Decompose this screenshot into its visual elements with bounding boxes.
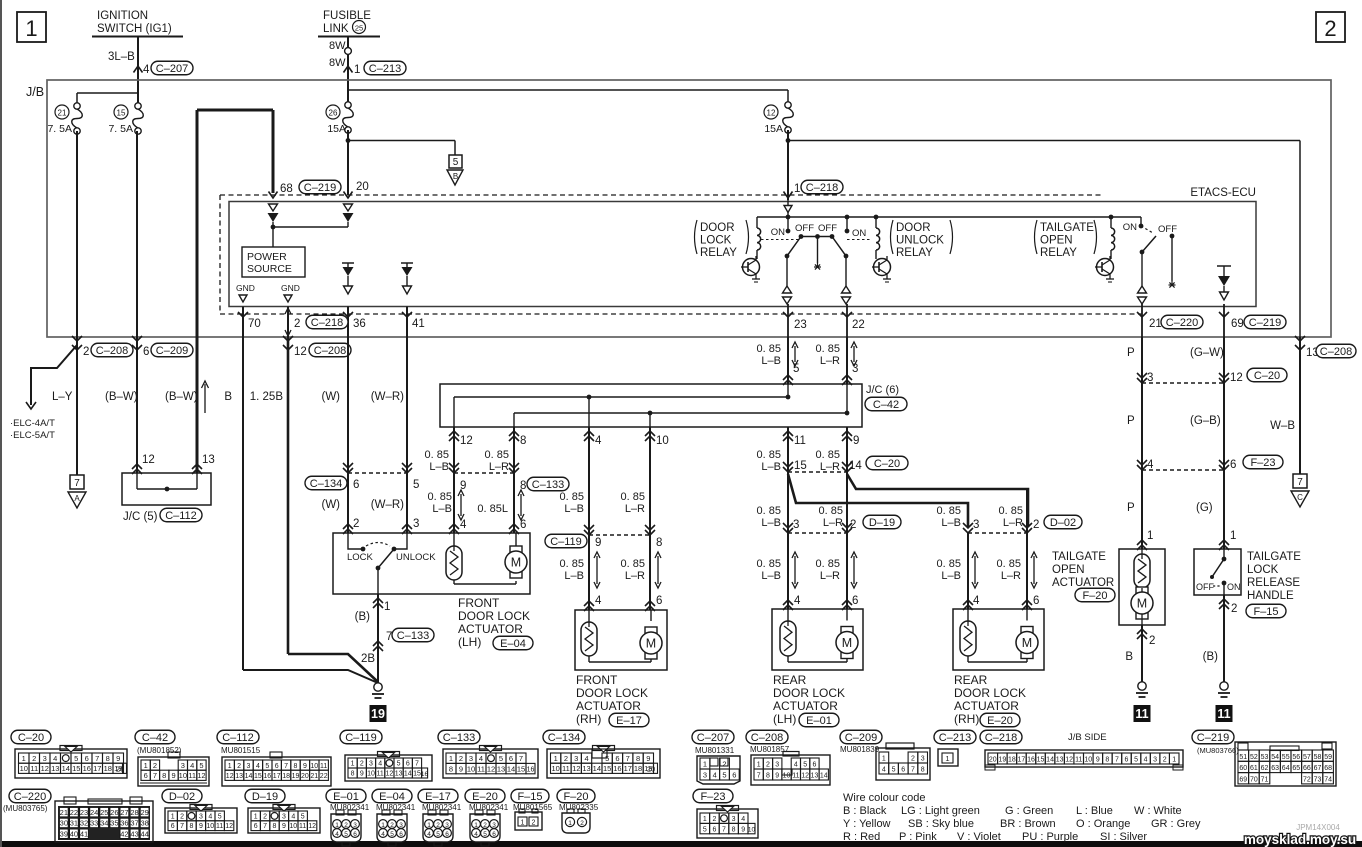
svg-text:3: 3 xyxy=(574,754,578,763)
svg-text:5: 5 xyxy=(483,831,487,838)
svg-text:4: 4 xyxy=(973,595,980,607)
svg-text:69: 69 xyxy=(1231,318,1244,330)
svg-text:8: 8 xyxy=(449,764,453,773)
svg-text:4: 4 xyxy=(208,813,212,820)
svg-text:L–Y: L–Y xyxy=(52,391,73,403)
svg-text:19: 19 xyxy=(371,707,385,721)
svg-text:3: 3 xyxy=(181,761,185,770)
svg-text:L–R: L–R xyxy=(625,570,645,582)
svg-text:6: 6 xyxy=(520,519,526,531)
svg-text:15A: 15A xyxy=(327,123,346,135)
svg-text:BR : Brown: BR : Brown xyxy=(1000,818,1056,830)
svg-text:13: 13 xyxy=(811,773,819,780)
svg-text:(B–W): (B–W) xyxy=(105,391,138,403)
svg-text:C–134: C–134 xyxy=(310,478,342,490)
svg-text:C–213: C–213 xyxy=(369,63,401,75)
svg-text:L–R: L–R xyxy=(1001,570,1021,582)
svg-text:2: 2 xyxy=(153,761,157,770)
svg-text:OPEN: OPEN xyxy=(1052,564,1085,576)
svg-text:10: 10 xyxy=(656,435,669,447)
svg-text:21: 21 xyxy=(58,109,67,118)
svg-text:12: 12 xyxy=(226,773,234,780)
svg-text:C–20: C–20 xyxy=(1254,370,1280,382)
svg-text:1: 1 xyxy=(1147,530,1153,542)
svg-text:9: 9 xyxy=(360,771,364,778)
svg-text:41: 41 xyxy=(412,318,425,330)
svg-text:5: 5 xyxy=(436,831,440,838)
svg-text:25: 25 xyxy=(100,808,108,817)
svg-text:1: 1 xyxy=(427,822,431,829)
svg-text:4: 4 xyxy=(335,831,339,838)
svg-text:18: 18 xyxy=(634,764,642,773)
svg-text:11: 11 xyxy=(216,823,223,830)
svg-text:GND: GND xyxy=(236,283,255,293)
svg-text:E–04: E–04 xyxy=(500,638,526,650)
svg-text:0. 85: 0. 85 xyxy=(819,505,843,517)
svg-text:28: 28 xyxy=(130,808,138,817)
svg-text:8: 8 xyxy=(273,823,277,830)
svg-text:60: 60 xyxy=(1239,765,1247,772)
svg-text:7: 7 xyxy=(722,826,726,833)
svg-text:L–B: L–B xyxy=(761,517,781,529)
svg-text:9: 9 xyxy=(459,764,463,773)
svg-text:27: 27 xyxy=(120,808,128,817)
svg-text:2: 2 xyxy=(564,754,568,763)
svg-text:GR : Grey: GR : Grey xyxy=(1151,818,1201,830)
svg-text:22: 22 xyxy=(70,808,78,817)
svg-text:4: 4 xyxy=(595,595,602,607)
svg-text:7: 7 xyxy=(519,754,523,763)
svg-text:Wire colour code: Wire colour code xyxy=(843,792,926,804)
svg-text:57: 57 xyxy=(1303,754,1311,761)
svg-text:12: 12 xyxy=(308,823,316,830)
svg-text:MU801839: MU801839 xyxy=(840,745,880,754)
svg-text:(LH): (LH) xyxy=(458,635,481,649)
svg-text:14: 14 xyxy=(820,773,828,780)
svg-text:11: 11 xyxy=(1217,707,1230,721)
svg-text:E–20: E–20 xyxy=(472,791,498,803)
svg-text:12: 12 xyxy=(767,109,776,118)
svg-text:2B: 2B xyxy=(361,653,375,665)
svg-text:F–20: F–20 xyxy=(563,791,588,803)
svg-text:3: 3 xyxy=(793,519,799,531)
svg-text:3: 3 xyxy=(399,822,403,829)
svg-text:4: 4 xyxy=(460,519,467,531)
svg-text:74: 74 xyxy=(1324,777,1332,784)
svg-text:0. 85L: 0. 85L xyxy=(477,503,508,515)
svg-text:M: M xyxy=(646,637,656,651)
svg-text:(MU803766): (MU803766) xyxy=(1197,746,1239,755)
svg-text:L–B: L–B xyxy=(941,570,961,582)
svg-text:11: 11 xyxy=(320,763,327,770)
svg-text:R : Red: R : Red xyxy=(843,831,880,843)
svg-text:0. 85: 0. 85 xyxy=(428,491,452,503)
svg-text:6: 6 xyxy=(712,826,716,833)
svg-text:L–R: L–R xyxy=(820,570,840,582)
svg-text:C–213: C–213 xyxy=(939,732,971,744)
svg-text:2: 2 xyxy=(83,346,89,358)
svg-text:20: 20 xyxy=(989,757,997,764)
svg-text:18: 18 xyxy=(282,773,290,780)
svg-text:1: 1 xyxy=(1230,530,1236,542)
svg-text:2: 2 xyxy=(1324,16,1336,41)
svg-text:6: 6 xyxy=(732,771,736,780)
svg-text:15: 15 xyxy=(117,109,126,118)
svg-text:L–R: L–R xyxy=(489,461,509,473)
svg-text:1: 1 xyxy=(703,816,707,823)
svg-text:(W): (W) xyxy=(321,391,340,403)
svg-text:RELEASE: RELEASE xyxy=(1247,577,1300,589)
svg-text:24: 24 xyxy=(90,808,98,817)
svg-text:10: 10 xyxy=(310,763,318,770)
svg-text:0. 85: 0. 85 xyxy=(621,558,645,570)
svg-text:4: 4 xyxy=(1147,459,1154,471)
svg-text:59: 59 xyxy=(1324,754,1332,761)
svg-text:6: 6 xyxy=(143,346,149,358)
svg-text:3: 3 xyxy=(732,816,736,823)
svg-text:42: 42 xyxy=(120,829,128,838)
svg-text:12: 12 xyxy=(1230,372,1243,384)
svg-text:15: 15 xyxy=(603,764,611,773)
svg-text:72: 72 xyxy=(1303,777,1311,784)
svg-text:1: 1 xyxy=(794,183,800,195)
svg-text:2: 2 xyxy=(911,756,915,763)
svg-text:0. 85: 0. 85 xyxy=(425,449,449,461)
svg-text:11: 11 xyxy=(188,771,196,780)
svg-text:5: 5 xyxy=(265,763,269,770)
svg-text:C–133: C–133 xyxy=(443,732,475,744)
svg-text:6: 6 xyxy=(852,595,858,607)
svg-text:6: 6 xyxy=(85,754,89,763)
svg-text:0. 85: 0. 85 xyxy=(757,505,781,517)
svg-text:5: 5 xyxy=(453,157,459,168)
svg-text:12: 12 xyxy=(197,771,205,780)
svg-text:(G–B): (G–B) xyxy=(1190,415,1221,427)
svg-text:6: 6 xyxy=(901,767,905,774)
svg-text:4: 4 xyxy=(479,754,483,763)
svg-text:MU801331: MU801331 xyxy=(695,746,735,755)
svg-text:55: 55 xyxy=(1282,754,1290,761)
svg-text:0. 85: 0. 85 xyxy=(816,449,840,461)
svg-text:(W–R): (W–R) xyxy=(371,391,404,403)
svg-text:1: 1 xyxy=(381,822,385,829)
svg-text:41: 41 xyxy=(80,829,88,838)
svg-text:12: 12 xyxy=(460,435,473,447)
svg-text:20: 20 xyxy=(647,764,655,773)
svg-text:70: 70 xyxy=(248,318,261,330)
svg-text:SWITCH (IG1): SWITCH (IG1) xyxy=(97,23,172,35)
svg-text:IGNITION: IGNITION xyxy=(97,10,148,22)
svg-text:5: 5 xyxy=(344,831,348,838)
svg-text:11: 11 xyxy=(562,764,570,773)
svg-text:6: 6 xyxy=(399,831,403,838)
svg-text:J/B SIDE: J/B SIDE xyxy=(1068,732,1107,743)
svg-text:L–B: L–B xyxy=(941,517,961,529)
svg-text:31: 31 xyxy=(70,819,78,828)
svg-text:ACTUATOR: ACTUATOR xyxy=(458,622,523,636)
svg-text:E–17: E–17 xyxy=(616,715,642,727)
svg-text:12: 12 xyxy=(487,764,495,773)
svg-text:9: 9 xyxy=(646,754,650,763)
svg-text:68: 68 xyxy=(280,183,293,195)
svg-text:F–15: F–15 xyxy=(1253,606,1278,618)
svg-text:C–220: C–220 xyxy=(14,791,46,803)
svg-text:9: 9 xyxy=(1096,757,1100,764)
svg-text:21: 21 xyxy=(1149,318,1162,330)
svg-text:21: 21 xyxy=(60,808,68,817)
svg-text:8: 8 xyxy=(656,537,662,549)
svg-text:C–208: C–208 xyxy=(1320,346,1352,358)
svg-text:OFF: OFF xyxy=(1196,582,1214,592)
svg-text:7: 7 xyxy=(386,631,392,643)
svg-text:10: 10 xyxy=(367,771,375,778)
svg-text:C–209: C–209 xyxy=(845,732,877,744)
svg-text:10: 10 xyxy=(1084,757,1092,764)
svg-text:14: 14 xyxy=(593,764,601,773)
svg-text:17: 17 xyxy=(273,773,281,780)
svg-text:6: 6 xyxy=(353,831,357,838)
svg-text:MU801857: MU801857 xyxy=(750,745,790,754)
svg-text:16: 16 xyxy=(1027,757,1035,764)
svg-text:ACTUATOR: ACTUATOR xyxy=(954,699,1019,713)
svg-text:A: A xyxy=(74,494,80,503)
svg-text:C–218: C–218 xyxy=(806,182,838,194)
svg-text:J/C (6): J/C (6) xyxy=(866,384,899,396)
svg-text:9: 9 xyxy=(199,823,203,830)
svg-text:13: 13 xyxy=(202,454,215,466)
svg-text:26: 26 xyxy=(110,808,118,817)
svg-text:ON: ON xyxy=(852,228,866,239)
svg-text:54: 54 xyxy=(1271,754,1279,761)
svg-text:3: 3 xyxy=(353,822,357,829)
svg-text:5: 5 xyxy=(301,813,305,820)
svg-text:7: 7 xyxy=(757,773,761,780)
svg-text:2: 2 xyxy=(1149,635,1155,647)
svg-text:4: 4 xyxy=(143,64,150,76)
svg-text:RELAY: RELAY xyxy=(700,247,737,259)
svg-text:6: 6 xyxy=(1125,757,1129,764)
svg-text:1: 1 xyxy=(703,760,707,769)
svg-text:6: 6 xyxy=(406,761,410,768)
svg-text:15: 15 xyxy=(413,771,421,778)
svg-text:(W): (W) xyxy=(321,499,340,511)
svg-text:1: 1 xyxy=(554,754,558,763)
svg-text:10: 10 xyxy=(748,827,756,834)
svg-text:29: 29 xyxy=(140,808,148,817)
svg-text:(W–R): (W–R) xyxy=(371,499,404,511)
svg-text:2: 2 xyxy=(294,318,300,330)
svg-text:P : Pink: P : Pink xyxy=(899,831,937,843)
svg-text:38: 38 xyxy=(140,819,148,828)
svg-text:17: 17 xyxy=(93,764,101,773)
svg-text:8: 8 xyxy=(351,771,355,778)
svg-text:2: 2 xyxy=(360,761,364,768)
svg-text:L : Blue: L : Blue xyxy=(1076,805,1113,817)
svg-text:C–220: C–220 xyxy=(1166,317,1198,329)
svg-text:14: 14 xyxy=(849,460,862,472)
svg-text:10: 10 xyxy=(467,764,475,773)
svg-text:6: 6 xyxy=(353,479,359,491)
svg-text:12: 12 xyxy=(572,764,580,773)
svg-text:L–B: L–B xyxy=(429,461,449,473)
svg-text:11: 11 xyxy=(794,435,806,447)
svg-text:4: 4 xyxy=(53,754,57,763)
svg-text:L–B: L–B xyxy=(761,461,781,473)
svg-text:15: 15 xyxy=(254,773,262,780)
svg-text:6: 6 xyxy=(445,831,449,838)
svg-text:B: B xyxy=(224,391,232,403)
svg-text:10: 10 xyxy=(551,764,559,773)
svg-text:E–01: E–01 xyxy=(333,791,359,803)
svg-text:PU : Purple: PU : Purple xyxy=(1022,831,1078,843)
svg-text:2: 2 xyxy=(436,822,440,829)
svg-text:FUSIBLE: FUSIBLE xyxy=(323,10,371,22)
svg-text:14: 14 xyxy=(507,764,515,773)
svg-text:0. 85: 0. 85 xyxy=(621,491,645,503)
svg-text:C–20: C–20 xyxy=(18,732,44,744)
svg-text:TAILGATE: TAILGATE xyxy=(1052,551,1106,563)
svg-text:11: 11 xyxy=(792,773,799,780)
svg-text:13: 13 xyxy=(582,764,590,773)
svg-text:L–B: L–B xyxy=(564,503,584,515)
svg-text:4: 4 xyxy=(381,831,385,838)
svg-text:6: 6 xyxy=(1033,595,1039,607)
svg-text:12: 12 xyxy=(294,346,307,358)
svg-text:M: M xyxy=(1137,597,1147,611)
svg-text:1: 1 xyxy=(384,601,390,613)
svg-text:70: 70 xyxy=(1250,777,1258,784)
svg-text:2: 2 xyxy=(532,820,536,827)
svg-text:J/B: J/B xyxy=(26,85,44,99)
svg-text:2: 2 xyxy=(483,822,487,829)
svg-text:REAR: REAR xyxy=(773,673,807,687)
svg-text:3: 3 xyxy=(43,754,47,763)
svg-text:56: 56 xyxy=(1292,754,1300,761)
svg-text:52: 52 xyxy=(1250,754,1258,761)
svg-text:10: 10 xyxy=(289,823,297,830)
svg-text:UNLOCK: UNLOCK xyxy=(396,552,436,563)
svg-text:36: 36 xyxy=(353,318,366,330)
svg-text:·ELC-4A/T: ·ELC-4A/T xyxy=(10,418,55,429)
svg-text:18: 18 xyxy=(1008,757,1016,764)
svg-text:GND: GND xyxy=(281,283,300,293)
svg-text:61: 61 xyxy=(1250,765,1258,772)
svg-text:9: 9 xyxy=(853,435,859,447)
svg-text:1: 1 xyxy=(335,822,339,829)
svg-text:7: 7 xyxy=(415,761,419,768)
svg-text:F–15: F–15 xyxy=(517,791,542,803)
svg-text:3: 3 xyxy=(369,761,373,768)
svg-text:(RH): (RH) xyxy=(576,712,601,726)
svg-text:22: 22 xyxy=(852,319,865,331)
svg-text:7: 7 xyxy=(74,478,80,489)
svg-text:E–17: E–17 xyxy=(425,791,451,803)
svg-text:4: 4 xyxy=(794,762,798,769)
svg-text:C–208: C–208 xyxy=(751,732,783,744)
svg-text:L–R: L–R xyxy=(820,355,840,367)
svg-text:11: 11 xyxy=(30,764,38,773)
svg-text:L–B: L–B xyxy=(761,355,781,367)
svg-text:C–119: C–119 xyxy=(345,732,377,744)
svg-text:L–B: L–B xyxy=(432,503,452,515)
svg-text:69: 69 xyxy=(1239,777,1247,784)
svg-text:2: 2 xyxy=(1033,519,1039,531)
svg-text:5: 5 xyxy=(390,831,394,838)
svg-text:39: 39 xyxy=(60,829,68,838)
svg-text:30: 30 xyxy=(60,819,68,828)
svg-text:5: 5 xyxy=(1134,757,1138,764)
svg-text:25: 25 xyxy=(355,24,363,33)
svg-text:P: P xyxy=(1127,415,1135,427)
svg-text:40: 40 xyxy=(70,829,78,838)
svg-text:0. 85: 0. 85 xyxy=(997,558,1021,570)
svg-text:8: 8 xyxy=(732,826,736,833)
svg-text:5: 5 xyxy=(499,754,503,763)
svg-text:8: 8 xyxy=(636,754,640,763)
svg-text:P: P xyxy=(1127,347,1135,359)
svg-text:63: 63 xyxy=(1271,765,1279,772)
svg-text:OFF: OFF xyxy=(1158,224,1177,235)
svg-text:P: P xyxy=(1127,502,1135,514)
svg-text:9: 9 xyxy=(595,537,601,549)
svg-text:4: 4 xyxy=(378,761,382,768)
svg-text:3: 3 xyxy=(247,763,251,770)
svg-text:O : Orange: O : Orange xyxy=(1076,818,1130,830)
svg-text:L–R: L–R xyxy=(823,517,843,529)
svg-text:5: 5 xyxy=(397,761,401,768)
svg-text:2: 2 xyxy=(344,822,348,829)
svg-text:2: 2 xyxy=(722,760,726,769)
svg-text:DOOR LOCK: DOOR LOCK xyxy=(458,609,530,623)
svg-text:0. 85: 0. 85 xyxy=(816,343,840,355)
svg-text:4: 4 xyxy=(794,595,801,607)
svg-text:5: 5 xyxy=(793,363,799,375)
svg-text:6: 6 xyxy=(171,823,175,830)
svg-text:53: 53 xyxy=(1261,754,1269,761)
svg-text:14: 14 xyxy=(1046,757,1054,764)
svg-text:8: 8 xyxy=(190,823,194,830)
svg-text:1: 1 xyxy=(568,820,572,827)
svg-text:7: 7 xyxy=(911,767,915,774)
svg-text:37: 37 xyxy=(130,819,138,828)
svg-text:2: 2 xyxy=(766,762,770,769)
svg-text:C–219: C–219 xyxy=(1197,732,1229,744)
svg-text:51: 51 xyxy=(1239,754,1247,761)
svg-text:2: 2 xyxy=(1163,757,1167,764)
svg-text:LOCK: LOCK xyxy=(347,552,374,563)
svg-text:9: 9 xyxy=(303,763,307,770)
svg-text:1: 1 xyxy=(1172,757,1176,764)
svg-text:6: 6 xyxy=(254,823,258,830)
svg-text:F–23: F–23 xyxy=(1250,457,1275,469)
svg-text:(G–W): (G–W) xyxy=(1190,347,1224,359)
svg-text:62: 62 xyxy=(1261,765,1269,772)
svg-text:LINK: LINK xyxy=(323,23,349,35)
svg-text:0. 85: 0. 85 xyxy=(560,491,584,503)
svg-text:TAILGATE: TAILGATE xyxy=(1040,222,1094,234)
svg-text:16: 16 xyxy=(613,764,621,773)
svg-text:26: 26 xyxy=(329,109,338,118)
svg-text:2: 2 xyxy=(32,754,36,763)
svg-text:58: 58 xyxy=(1314,754,1322,761)
svg-text:3: 3 xyxy=(1153,757,1157,764)
svg-text:7: 7 xyxy=(284,763,288,770)
svg-text:6: 6 xyxy=(812,762,816,769)
svg-text:5: 5 xyxy=(703,826,707,833)
svg-text:FRONT: FRONT xyxy=(458,596,500,610)
svg-text:ACTUATOR: ACTUATOR xyxy=(576,699,641,713)
svg-text:12: 12 xyxy=(386,771,394,778)
